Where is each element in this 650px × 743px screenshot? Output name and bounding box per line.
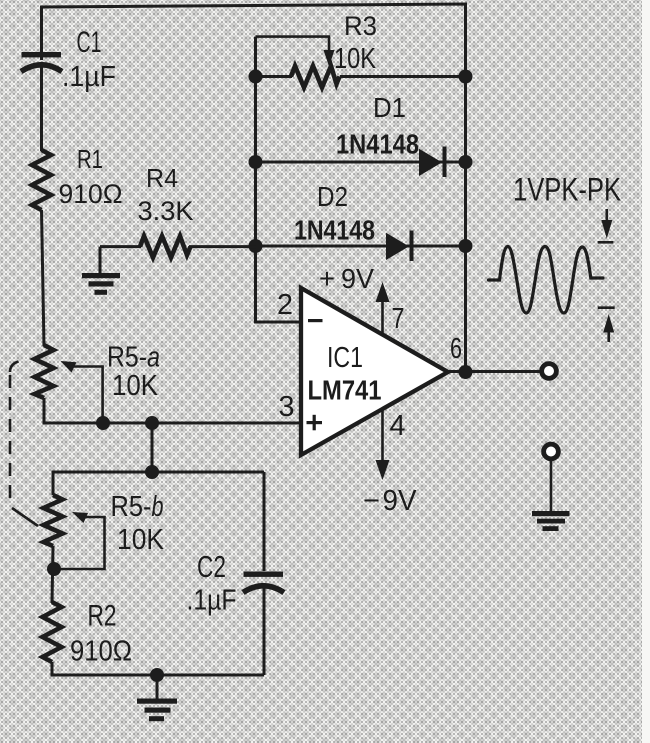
- wiper arrow R5-a: [61, 361, 103, 422]
- linkage diagonal to R5-b: [12, 508, 38, 526]
- resistor R3 (pot): [256, 66, 467, 88]
- node dot D1 left: [249, 155, 263, 169]
- potentiometer R5-b: [44, 495, 63, 546]
- svg-text:C2: C2: [197, 549, 226, 584]
- svg-text:3: 3: [279, 391, 295, 423]
- svg-text:2: 2: [277, 289, 293, 321]
- diode D2: [386, 231, 414, 262]
- svg-text:10K: 10K: [112, 370, 159, 402]
- +9V supply arrow: [376, 282, 390, 335]
- node dot R3 right: [459, 70, 473, 84]
- R3 wiper loop top: [256, 37, 330, 51]
- node dot R5-b wiper junction: [47, 562, 61, 576]
- svg-text:7: 7: [392, 303, 405, 335]
- wire R5-a bottom / pin3 node: [44, 398, 301, 423]
- wire C2 bottom: [263, 585, 266, 675]
- wire bottom loop: [52, 662, 264, 675]
- node dot D2 left: [249, 239, 263, 253]
- node dot R3 left: [249, 70, 263, 84]
- ground (bottom, R2): [137, 675, 177, 721]
- capacitor C1: [21, 52, 62, 72]
- wire C2 top: [263, 472, 266, 571]
- diode D1: [419, 147, 447, 178]
- svg-text:R2: R2: [88, 600, 117, 633]
- wire junction connector: [151, 423, 154, 472]
- node dot bottom ground junction: [150, 668, 164, 682]
- svg-text:R4: R4: [146, 163, 178, 193]
- output terminal T1: [542, 364, 557, 379]
- svg-text:3.3K: 3.3K: [138, 196, 194, 226]
- potentiometer R5-a: [35, 345, 54, 398]
- wire R1 to R5-a: [42, 210, 45, 346]
- node dot D1 right: [459, 155, 473, 169]
- svg-text:910Ω: 910Ω: [70, 636, 132, 668]
- annotation bottom arrow: [598, 308, 615, 342]
- wiper arrow R5-b: [55, 512, 105, 569]
- resistor R1: [32, 150, 51, 210]
- svg-text:R5-a: R5-a: [107, 342, 160, 374]
- ground terminal T2: [544, 444, 559, 459]
- annotation top arrow: [598, 209, 614, 242]
- node dot lower loop: [145, 465, 159, 479]
- op-amp plus input sign: [307, 415, 323, 431]
- svg-text:.1µF: .1µF: [187, 585, 237, 617]
- svg-text:10K: 10K: [117, 524, 165, 556]
- capacitor C2: [243, 572, 284, 593]
- diode D2 wire: [256, 245, 467, 248]
- ground (R4): [82, 247, 120, 295]
- resistor R4: [100, 236, 256, 258]
- op-amp U1 triangle: [301, 288, 448, 455]
- right rail: [464, 6, 467, 372]
- svg-text:1VPK-PK: 1VPK-PK: [513, 172, 621, 208]
- op-amp minus input sign: [308, 319, 323, 322]
- ganged-pot dashed link: [9, 375, 12, 504]
- svg-text:R3: R3: [344, 11, 377, 41]
- svg-text:1N4148: 1N4148: [336, 129, 419, 160]
- left bridge rail: [256, 37, 302, 322]
- node dot R5-a wiper junction: [96, 416, 110, 430]
- svg-text:910Ω: 910Ω: [59, 179, 123, 209]
- wire pin6 output: [448, 370, 540, 373]
- svg-text:IC1: IC1: [327, 342, 363, 374]
- R3 wiper arrow: [324, 50, 335, 67]
- svg-text:4: 4: [390, 410, 406, 442]
- ganged-pot linkage hook: [10, 362, 19, 373]
- resistor R2: [43, 602, 62, 662]
- ground (T2): [532, 459, 570, 531]
- svg-text:D2: D2: [317, 181, 348, 212]
- svg-text:D1: D1: [373, 92, 406, 123]
- wire top rail from C1 to right rail: [42, 4, 466, 80]
- wire C1 to R1: [40, 63, 43, 151]
- wire lower loop top: [53, 472, 264, 495]
- svg-text:+9V: +9V: [319, 263, 374, 294]
- wire R5-b to R2: [52, 546, 53, 603]
- svg-text:LM741: LM741: [308, 375, 382, 406]
- svg-text:.1µF: .1µF: [62, 61, 116, 93]
- svg-text:10K: 10K: [334, 43, 377, 75]
- node dot pin6: [459, 365, 473, 379]
- svg-text:−9V: −9V: [363, 485, 417, 517]
- svg-text:6: 6: [450, 333, 462, 365]
- svg-text:1N4148: 1N4148: [294, 215, 375, 246]
- node dot D2 right: [459, 239, 473, 253]
- -9V supply arrow: [376, 409, 390, 480]
- svg-text:R5-b: R5-b: [111, 491, 164, 523]
- svg-text:C1: C1: [77, 26, 102, 59]
- svg-text:R1: R1: [77, 144, 103, 174]
- node dot pin3/lower-loop junction: [145, 416, 159, 430]
- output sine waveform: [489, 247, 604, 314]
- diode D1 wire: [256, 161, 467, 164]
